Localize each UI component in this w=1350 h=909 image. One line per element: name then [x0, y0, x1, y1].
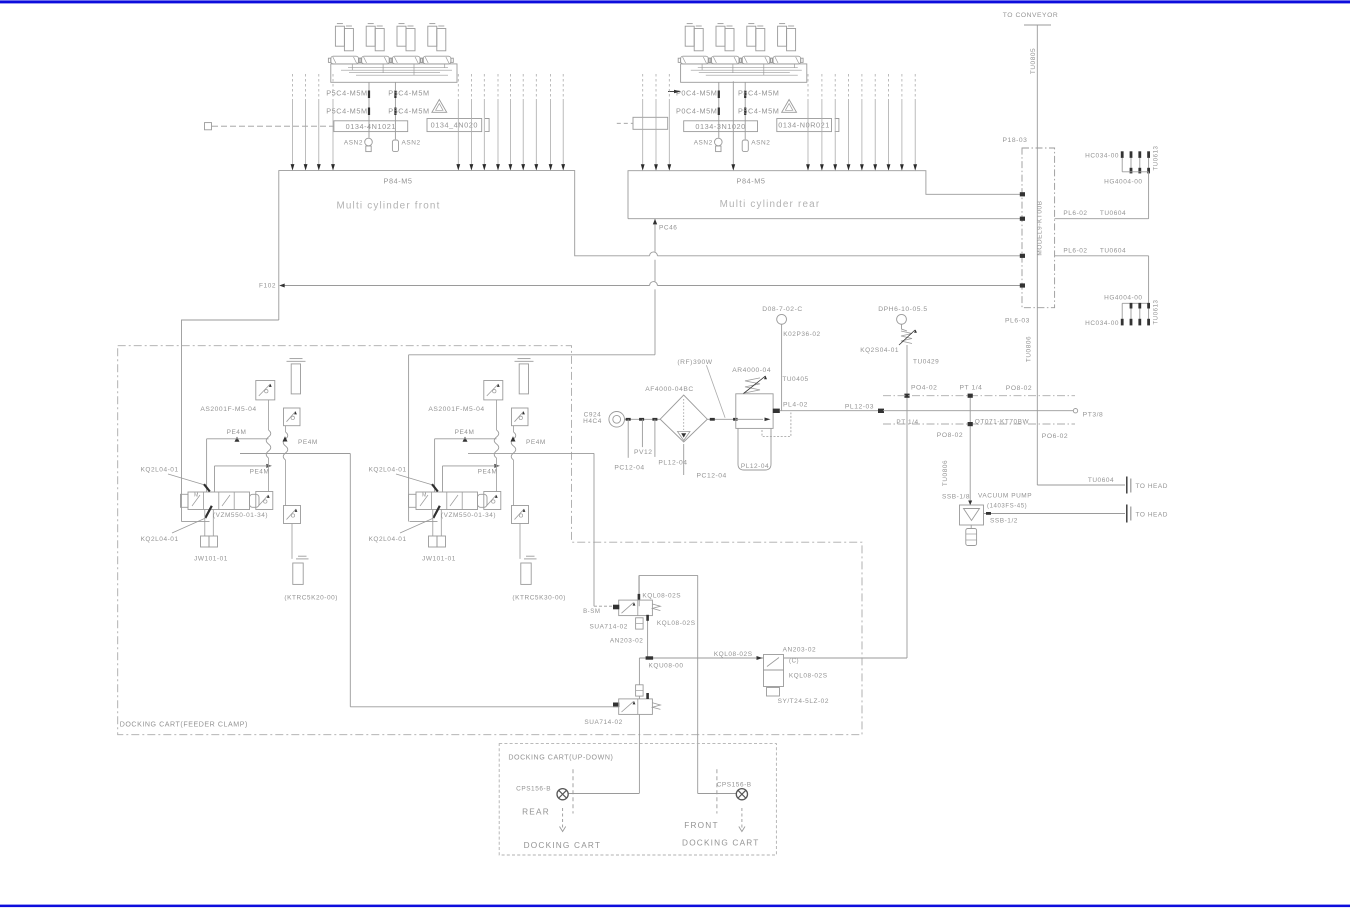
svg-text:DOCKING CART: DOCKING CART	[524, 841, 602, 850]
svg-text:KQU08-00: KQU08-00	[649, 663, 684, 670]
svg-text:(RF)390W: (RF)390W	[677, 359, 712, 366]
svg-text:PL12-03: PL12-03	[845, 403, 874, 410]
svg-text:PO8-02: PO8-02	[1006, 385, 1032, 392]
svg-text:TU0405: TU0405	[782, 376, 808, 383]
svg-text:P0C4-M5M: P0C4-M5M	[676, 106, 717, 115]
svg-text:KQL08-02S: KQL08-02S	[789, 672, 828, 679]
svg-text:DOCKING CART: DOCKING CART	[682, 839, 760, 848]
svg-text:PV12: PV12	[634, 449, 653, 456]
svg-text:P5C4-M5M: P5C4-M5M	[738, 106, 779, 115]
svg-text:Multi cylinder front: Multi cylinder front	[336, 201, 440, 212]
svg-text:H4C4: H4C4	[583, 418, 602, 425]
svg-text:0134_4N020: 0134_4N020	[431, 121, 478, 130]
svg-text:KQ2L04-01: KQ2L04-01	[141, 467, 179, 474]
svg-text:PE4M: PE4M	[526, 439, 546, 446]
svg-text:0134-3N1020: 0134-3N1020	[695, 122, 745, 131]
svg-text:KQ2L04-01: KQ2L04-01	[141, 536, 179, 543]
svg-text:TU0604: TU0604	[1088, 477, 1114, 484]
svg-text:TU0806: TU0806	[1026, 336, 1033, 362]
svg-text:ASN2: ASN2	[751, 140, 770, 147]
svg-text:PO8-02: PO8-02	[937, 432, 963, 439]
svg-text:PL4-02: PL4-02	[783, 402, 808, 409]
svg-text:SSB-1/8: SSB-1/8	[942, 494, 970, 501]
svg-text:AS2001F-M5-04: AS2001F-M5-04	[428, 406, 484, 413]
svg-text:P8C4-M5M: P8C4-M5M	[388, 88, 429, 97]
svg-text:HC034-00: HC034-00	[1085, 320, 1119, 327]
svg-text:PC12-04: PC12-04	[614, 464, 644, 471]
svg-text:ASN2: ASN2	[344, 140, 363, 147]
svg-text:PT 1/4: PT 1/4	[896, 419, 918, 426]
svg-text:ASN2: ASN2	[694, 140, 713, 147]
svg-text:SY/T24-5LZ-02: SY/T24-5LZ-02	[778, 698, 829, 705]
svg-text:KQ2L04-01: KQ2L04-01	[369, 467, 407, 474]
svg-text:PE4M: PE4M	[478, 468, 498, 475]
svg-text:TU0806: TU0806	[942, 460, 949, 486]
svg-text:DOCKING CART(FEEDER CLAMP): DOCKING CART(FEEDER CLAMP)	[120, 721, 248, 729]
svg-text:PE4M: PE4M	[227, 429, 247, 436]
svg-text:P5C4-M5M: P5C4-M5M	[388, 106, 429, 115]
svg-text:TU0429: TU0429	[913, 359, 939, 366]
svg-text:PL6-02: PL6-02	[1063, 247, 1087, 254]
svg-text:PT 1/4: PT 1/4	[960, 384, 983, 391]
svg-text:D08-7-02-C: D08-7-02-C	[762, 306, 803, 313]
svg-text:FRONT: FRONT	[684, 821, 718, 830]
svg-text:DOCKING CART(UP-DOWN): DOCKING CART(UP-DOWN)	[508, 754, 613, 762]
svg-text:DPH6-10-05.5: DPH6-10-05.5	[878, 306, 927, 313]
svg-text:AR4000-04: AR4000-04	[732, 367, 771, 374]
svg-text:K02P36-02: K02P36-02	[783, 331, 820, 338]
svg-text:AN203-02: AN203-02	[610, 637, 644, 644]
svg-text:P84-M5: P84-M5	[737, 176, 766, 185]
svg-text:KQ2S04-01: KQ2S04-01	[860, 347, 899, 354]
svg-text:CPS156-B: CPS156-B	[717, 782, 752, 789]
svg-text:0134-4N1021: 0134-4N1021	[346, 122, 396, 131]
svg-text:TU0613: TU0613	[1153, 145, 1160, 170]
svg-text:PE4M: PE4M	[455, 429, 475, 436]
svg-text:HG4004-00: HG4004-00	[1104, 294, 1142, 301]
svg-text:P18-03: P18-03	[1003, 137, 1028, 144]
svg-text:P8C4-M5M: P8C4-M5M	[738, 88, 779, 97]
svg-text:PL6-03: PL6-03	[1005, 318, 1030, 325]
svg-text:SUA714-02: SUA714-02	[589, 624, 627, 631]
svg-text:TO HEAD: TO HEAD	[1136, 512, 1169, 519]
svg-text:SSB-1/2: SSB-1/2	[990, 518, 1018, 525]
svg-text:PT3/8: PT3/8	[1083, 412, 1104, 419]
svg-text:PO4-02: PO4-02	[911, 384, 937, 391]
svg-text:(1403FS-45): (1403FS-45)	[987, 503, 1027, 510]
svg-text:P84-M5: P84-M5	[384, 176, 413, 185]
svg-text:PE4M: PE4M	[250, 468, 270, 475]
svg-text:TU0604: TU0604	[1100, 247, 1126, 254]
svg-text:(KTRC5K20-00): (KTRC5K20-00)	[284, 595, 338, 602]
svg-text:(KTRC5K30-00): (KTRC5K30-00)	[512, 595, 566, 602]
svg-text:AN203-02: AN203-02	[783, 647, 817, 654]
svg-text:KQL08-02S: KQL08-02S	[642, 593, 681, 600]
svg-text:M: M	[422, 493, 427, 499]
svg-text:PC12-04: PC12-04	[697, 472, 727, 479]
svg-text:AS2001F-M5-04: AS2001F-M5-04	[200, 406, 256, 413]
svg-text:TU0604: TU0604	[1100, 210, 1126, 217]
svg-text:SUA714-02: SUA714-02	[584, 719, 622, 726]
svg-text:PO6-02: PO6-02	[1042, 433, 1068, 440]
svg-text:M: M	[194, 493, 199, 499]
svg-text:(VZM550-01-34): (VZM550-01-34)	[213, 512, 268, 519]
svg-text:PL12-04: PL12-04	[658, 459, 687, 466]
svg-text:TO CONVEYOR: TO CONVEYOR	[1003, 12, 1058, 19]
svg-text:TU0805: TU0805	[1030, 48, 1037, 74]
svg-text:ASN2: ASN2	[402, 140, 421, 147]
svg-text:PL12-04: PL12-04	[741, 463, 769, 470]
svg-text:VACUUM PUMP: VACUUM PUMP	[978, 493, 1032, 500]
svg-text:TU0613: TU0613	[1153, 299, 1160, 324]
svg-text:TO HEAD: TO HEAD	[1136, 483, 1169, 490]
svg-text:CPS156-B: CPS156-B	[516, 786, 551, 793]
svg-text:PC46: PC46	[659, 225, 677, 232]
svg-text:QT071-KT70BW: QT071-KT70BW	[975, 418, 1030, 425]
svg-text:JW101-01: JW101-01	[194, 555, 228, 562]
svg-text:(VZM550-01-34): (VZM550-01-34)	[441, 512, 496, 519]
svg-text:PE4M: PE4M	[298, 439, 318, 446]
svg-text:B-SM: B-SM	[583, 608, 600, 615]
svg-text:HG4004-00: HG4004-00	[1104, 178, 1142, 185]
svg-text:KQL08-02S: KQL08-02S	[657, 620, 696, 627]
svg-text:PL6-02: PL6-02	[1063, 210, 1087, 217]
svg-text:AF4000-04BC: AF4000-04BC	[645, 386, 694, 393]
svg-text:JW101-01: JW101-01	[422, 555, 456, 562]
svg-text:REAR: REAR	[522, 808, 550, 817]
svg-text:P0C4-M5M: P0C4-M5M	[676, 88, 717, 97]
svg-text:Multi cylinder rear: Multi cylinder rear	[720, 199, 821, 210]
svg-text:HC034-00: HC034-00	[1085, 153, 1119, 160]
svg-text:P5C4-M5M: P5C4-M5M	[326, 106, 367, 115]
svg-text:KQ2L04-01: KQ2L04-01	[369, 536, 407, 543]
svg-text:P5C4-M5M: P5C4-M5M	[326, 88, 367, 97]
svg-text:F102: F102	[259, 283, 276, 290]
svg-text:KQL08-02S: KQL08-02S	[714, 651, 753, 658]
